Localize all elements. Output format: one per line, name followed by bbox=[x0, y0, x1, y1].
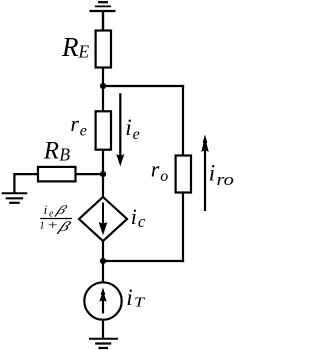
svg-text:e: e bbox=[80, 123, 87, 140]
node (top node, emitter) bbox=[100, 83, 106, 89]
svg-text:1: 1 bbox=[39, 219, 45, 231]
label ie bbox=[125, 115, 140, 143]
wire RB left to ground stem bbox=[14, 174, 38, 193]
resistor ro bbox=[176, 156, 191, 193]
ground (bottom) bbox=[89, 339, 118, 348]
node (base node) bbox=[100, 171, 106, 177]
svg-text:i: i bbox=[126, 285, 132, 310]
arrow inside diamond bbox=[99, 203, 108, 236]
label ic bbox=[131, 204, 146, 231]
label ro bbox=[151, 157, 168, 185]
current arrow ie bbox=[116, 93, 124, 166]
wire iT bottom to ground bbox=[102, 320, 104, 339]
wire bottom node to right bbox=[103, 260, 184, 262]
svg-text:T: T bbox=[134, 295, 145, 311]
wire top node to right corner bbox=[103, 85, 184, 87]
label RE bbox=[61, 32, 90, 62]
svg-text:i: i bbox=[125, 115, 131, 140]
svg-text:i: i bbox=[131, 204, 137, 229]
label iro bbox=[209, 160, 234, 189]
current arrow iro bbox=[201, 135, 209, 212]
label re bbox=[70, 111, 86, 139]
node (bottom node) bbox=[100, 258, 106, 264]
wire RB right to base node bbox=[76, 173, 104, 175]
label iT bbox=[126, 285, 145, 310]
svg-text:i: i bbox=[209, 160, 215, 185]
svg-text:o: o bbox=[160, 168, 168, 185]
wire RE bottom to re top bbox=[102, 68, 104, 112]
svg-text:ro: ro bbox=[217, 170, 234, 189]
ground (left) bbox=[2, 193, 28, 203]
current source iT (circle) bbox=[84, 282, 121, 319]
ground (top, inverted) bbox=[90, 2, 116, 30]
dependent current source (diamond) ic bbox=[79, 197, 127, 241]
resistor re bbox=[96, 111, 111, 149]
svg-text:c: c bbox=[138, 212, 146, 231]
wire diamond bottom to bottom node bbox=[102, 241, 104, 283]
svg-text:i: i bbox=[44, 202, 48, 217]
svg-text:r: r bbox=[151, 157, 160, 182]
svg-text:R: R bbox=[43, 137, 59, 164]
wire right corner down to ro top bbox=[182, 85, 184, 156]
wire re bottom to diamond top bbox=[102, 150, 104, 198]
arrow inside iT bbox=[99, 288, 107, 314]
svg-text:E: E bbox=[78, 42, 90, 62]
label RB bbox=[43, 137, 71, 164]
resistor RB bbox=[38, 167, 76, 182]
svg-text:+: + bbox=[47, 218, 59, 232]
svg-text:e: e bbox=[133, 126, 140, 143]
svg-text:R: R bbox=[61, 32, 79, 62]
svg-text:B: B bbox=[59, 145, 70, 165]
svg-text:r: r bbox=[70, 111, 79, 136]
wire ro bottom down to corner bbox=[182, 193, 184, 263]
label ie*beta/(1+beta) bbox=[39, 202, 73, 234]
resistor RE bbox=[96, 31, 111, 68]
